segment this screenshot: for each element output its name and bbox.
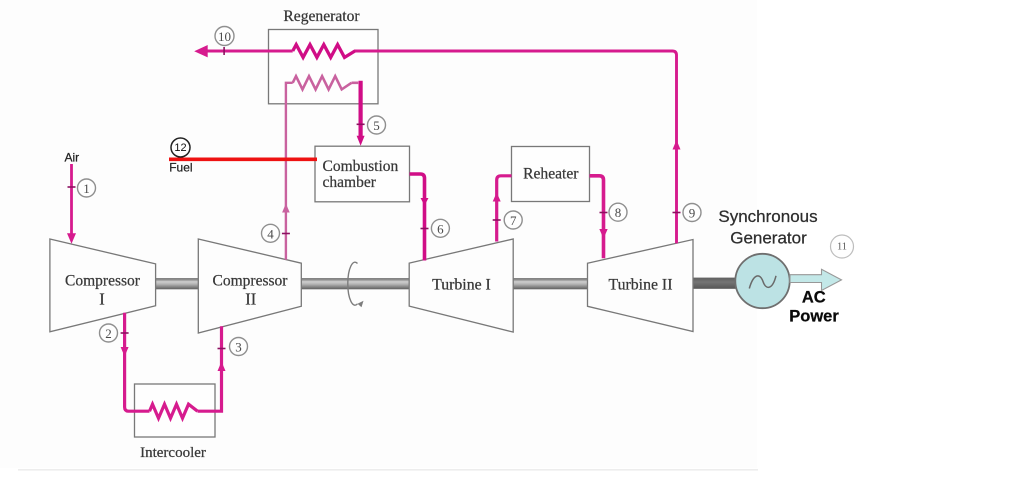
svg-text:1: 1: [83, 181, 90, 196]
svg-text:8: 8: [615, 205, 622, 220]
svg-text:Intercooler: Intercooler: [140, 445, 206, 461]
svg-text:9: 9: [689, 206, 696, 221]
svg-text:Combustion: Combustion: [323, 158, 399, 175]
svg-text:Compressor: Compressor: [65, 273, 141, 290]
svg-text:Regenerator: Regenerator: [283, 8, 360, 25]
svg-text:3: 3: [235, 340, 242, 355]
svg-text:I: I: [99, 290, 105, 309]
svg-text:2: 2: [105, 326, 112, 341]
svg-text:Synchronous: Synchronous: [718, 207, 817, 226]
svg-text:6: 6: [437, 221, 444, 236]
svg-text:Turbine I: Turbine I: [432, 277, 491, 294]
svg-text:Compressor: Compressor: [213, 273, 289, 290]
svg-text:Reheater: Reheater: [523, 165, 579, 182]
svg-text:5: 5: [373, 118, 380, 133]
svg-text:7: 7: [510, 213, 517, 228]
svg-text:10: 10: [218, 29, 231, 44]
svg-text:chamber: chamber: [323, 174, 377, 191]
svg-text:Generator: Generator: [730, 229, 807, 248]
svg-text:12: 12: [174, 142, 186, 154]
svg-text:11: 11: [837, 241, 847, 252]
svg-text:Air: Air: [65, 151, 80, 165]
svg-text:Turbine II: Turbine II: [609, 277, 673, 294]
svg-text:4: 4: [267, 226, 274, 241]
svg-text:Power: Power: [789, 307, 839, 325]
svg-text:II: II: [245, 290, 256, 309]
svg-text:AC: AC: [802, 289, 826, 307]
svg-text:Fuel: Fuel: [169, 161, 192, 175]
